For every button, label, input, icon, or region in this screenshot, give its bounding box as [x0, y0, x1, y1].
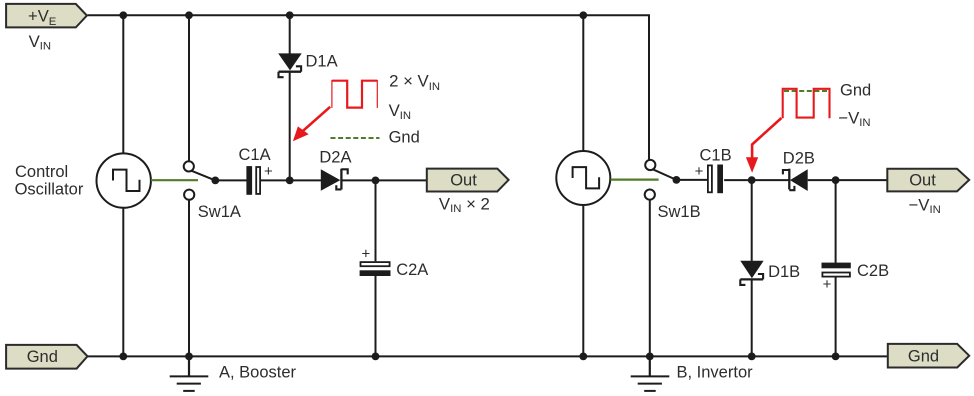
wire oscillator A bottom: [122, 208, 124, 357]
node bottom rail gnd B: [646, 353, 654, 361]
switch Sw1B bottom terminal: [645, 190, 655, 200]
svg-text:Gnd: Gnd: [389, 129, 420, 147]
wire bottom rail: [88, 355, 888, 357]
svg-text:+: +: [362, 245, 371, 262]
wire D2B to Out tag B: [808, 179, 888, 181]
oscillator U1B circle: [556, 151, 610, 205]
wire top rail: [88, 15, 650, 160]
svg-text:+: +: [695, 163, 704, 180]
svg-text:C1A: C1A: [239, 146, 271, 164]
svg-text:Gnd: Gnd: [27, 348, 58, 366]
red arrow A: [293, 107, 330, 141]
svg-text:Control: Control: [15, 163, 68, 181]
switch Sw1B top terminal: [645, 160, 655, 170]
wire node B to D2B: [752, 179, 789, 181]
svg-text:C2B: C2B: [857, 262, 889, 280]
node bottom rail gnd A: [185, 353, 193, 361]
node Sw1B pole: [673, 176, 681, 184]
node bottom rail C2B: [832, 353, 840, 361]
diode D2B (schottky, pointing left): [783, 169, 808, 191]
node A junction: [286, 177, 294, 185]
oscillator U1B square-wave glyph: [573, 167, 600, 188]
wire C2B to bottom rail: [835, 277, 837, 356]
wire Sw1A bottom: [188, 200, 190, 357]
wire oscillator B top: [582, 15, 584, 151]
tag +VE: [6, 4, 87, 28]
green dashed Gnd level B: [784, 90, 830, 92]
wire Sw1B pole to C1B: [676, 179, 707, 181]
node Sw1A pole: [211, 177, 219, 185]
oscillator U1A square-wave glyph: [113, 170, 140, 191]
oscillator U1A circle: [97, 153, 151, 207]
node B junction: [748, 176, 756, 184]
green dashed Gnd level A: [331, 137, 380, 139]
svg-text:D1B: D1B: [768, 263, 800, 281]
capacitor C1B: [708, 165, 723, 194]
node bottom rail osc A: [119, 353, 127, 361]
wire C2A to bottom rail: [375, 276, 377, 356]
svg-text:C1B: C1B: [700, 147, 732, 165]
diode D2A (schottky, pointing right): [321, 169, 348, 191]
wire D1A cathode to node A: [289, 73, 291, 181]
svg-text:Gnd: Gnd: [908, 348, 939, 366]
wire Sw1A pole to C1A: [215, 179, 246, 181]
node top rail osc B: [579, 11, 587, 19]
node top rail D1A: [286, 11, 294, 19]
switch Sw1A bottom terminal: [184, 190, 194, 200]
wire oscillator B bottom: [582, 205, 584, 356]
svg-text:Gnd: Gnd: [840, 82, 871, 100]
label Control Oscillator: [15, 163, 84, 198]
wire C1B to node B: [724, 179, 752, 181]
wire green oscillator B output: [611, 179, 659, 181]
node bottom rail D1B: [748, 353, 756, 361]
svg-text:A, Booster: A, Booster: [219, 364, 297, 382]
diode D1A (schottky, cathode up): [278, 53, 302, 77]
node output A junction: [372, 177, 380, 185]
wire oscillator A top: [122, 15, 124, 153]
svg-text:Sw1B: Sw1B: [658, 203, 701, 221]
ground symbol B: [631, 356, 670, 391]
svg-text:D1A: D1A: [306, 53, 338, 71]
ground symbol A: [170, 356, 209, 391]
wire green oscillator A output: [151, 179, 198, 181]
wire C1A to node A: [261, 179, 290, 181]
wire output A to C2A: [375, 180, 377, 261]
svg-text:D2B: D2B: [783, 149, 815, 167]
tag Gnd left: [6, 345, 87, 369]
wire output B to C2B: [835, 180, 837, 263]
switch Sw1B lever: [653, 169, 677, 180]
node output B junction: [832, 176, 840, 184]
capacitor C2B: [822, 263, 851, 277]
wire D1A anode to top rail: [289, 15, 291, 54]
wire Sw1A top: [188, 15, 190, 161]
tag Out A: [427, 169, 509, 192]
wire Sw1B bottom: [649, 200, 651, 357]
capacitor C1A: [246, 166, 260, 195]
tag Gnd right: [888, 344, 969, 368]
switch Sw1A lever: [191, 171, 215, 181]
node bottom rail C2A: [372, 353, 380, 361]
svg-text:Sw1A: Sw1A: [198, 203, 241, 221]
red waveform B: [783, 89, 830, 119]
svg-text:Out: Out: [450, 172, 477, 190]
node top rail Sw1A: [185, 11, 193, 19]
svg-text:+: +: [823, 276, 832, 293]
wire D1B to bottom rail: [751, 281, 753, 357]
svg-text:VIN × 2: VIN × 2: [439, 194, 490, 215]
svg-text:C2A: C2A: [396, 261, 428, 279]
node top rail osc A: [119, 11, 127, 19]
svg-text:Oscillator: Oscillator: [15, 180, 84, 198]
svg-text:B, Invertor: B, Invertor: [677, 363, 754, 381]
wire node A to D2A: [290, 179, 322, 181]
svg-text:+: +: [264, 163, 273, 180]
capacitor C2A: [360, 262, 391, 276]
svg-text:D2A: D2A: [319, 148, 351, 166]
switch Sw1A top terminal: [184, 161, 194, 171]
svg-text:Out: Out: [909, 172, 936, 190]
wire node B to D1B: [751, 180, 753, 261]
node bottom rail osc B: [579, 353, 587, 361]
wire D2A to Out tag: [343, 179, 427, 181]
diode D1B (schottky, cathode down): [740, 261, 763, 285]
red waveform A: [332, 80, 377, 108]
red arrow B: [746, 118, 782, 173]
tag Out B: [887, 169, 969, 192]
